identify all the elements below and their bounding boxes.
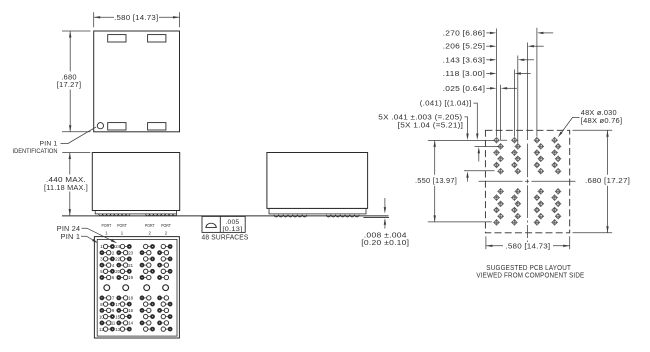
- row2 extension line: [475, 146, 500, 148]
- bottom view center holes: [104, 285, 169, 291]
- pcb pad column 2 top: [511, 137, 521, 174]
- dimension .680 [17.27] left: [57, 31, 91, 132]
- svg-text:11: 11: [111, 321, 116, 326]
- dimension .680 [17.27] right: [573, 130, 631, 233]
- top view pad window top-left: [108, 35, 126, 42]
- pcb extension line D (x=517.8): [517, 56, 519, 144]
- row6 extension line: [464, 170, 495, 172]
- bottom view pad row top1: [100, 244, 171, 249]
- side view (middle) body outline: [267, 153, 368, 209]
- svg-text:5X .041 ±.003 (=.205): 5X .041 ±.003 (=.205): [378, 114, 462, 121]
- svg-text:1: 1: [121, 230, 124, 235]
- leader PIN 1: [61, 232, 99, 243]
- row1 extension line: [428, 139, 495, 141]
- bottom view pad row bot3: [100, 308, 168, 313]
- svg-text:[11.18 MAX.]: [11.18 MAX.]: [44, 185, 88, 192]
- svg-text:2: 2: [149, 230, 152, 235]
- svg-text:.206 [5.25]: .206 [5.25]: [443, 44, 486, 51]
- svg-text:[48X ø0.76]: [48X ø0.76]: [581, 118, 623, 125]
- svg-text:.580 [14.73]: .580 [14.73]: [114, 15, 158, 22]
- svg-text:18: 18: [128, 296, 133, 301]
- side view (left) castellation pads: [99, 214, 177, 216]
- bottom view pad row top6: [100, 275, 168, 280]
- svg-text:[17.27]: [17.27]: [57, 82, 82, 89]
- label 5X .041: [378, 114, 468, 140]
- svg-text:.550 [13.97]: .550 [13.97]: [415, 178, 457, 185]
- leader PIN 1 IDENTIFICATION: [13, 127, 97, 155]
- svg-text:IDENTIFICATION: IDENTIFICATION: [13, 149, 58, 155]
- pcb pad column 4 top: [552, 137, 562, 174]
- bottom view pad row top5: [100, 269, 171, 274]
- top view pad window bottom-left: [108, 123, 126, 130]
- pcb extension line C (x=514.4): [513, 70, 515, 137]
- pcb pad column 1 bottom: [493, 188, 503, 225]
- side view (left) body outline: [92, 153, 179, 211]
- svg-text:12: 12: [99, 327, 104, 332]
- pcb pad column 2 bottom: [511, 188, 521, 225]
- dimension .550 [13.97]: [415, 140, 492, 222]
- svg-text:(.041) [(1.04)]: (.041) [(1.04)]: [420, 101, 472, 108]
- pcb pad column 3 top: [534, 137, 544, 174]
- row2 up arrow: [478, 147, 480, 162]
- svg-text:.440 MAX.: .440 MAX.: [46, 177, 86, 184]
- side view (middle) base strip: [269, 208, 366, 214]
- svg-text:PIN 1: PIN 1: [61, 232, 81, 241]
- caption SUGGESTED PCB LAYOUT: [476, 265, 584, 280]
- svg-text:[0.13]: [0.13]: [222, 226, 242, 233]
- bottom view pad row bot5: [100, 321, 168, 326]
- pcb extension line A (x=496.5): [496, 29, 498, 137]
- svg-text:20: 20: [115, 269, 120, 274]
- flatness callout frame: [202, 216, 249, 241]
- svg-text:13: 13: [115, 327, 120, 332]
- bottom view pad row top2: [100, 250, 168, 255]
- svg-text:VIEWED FROM COMPONENT SIDE: VIEWED FROM COMPONENT SIDE: [476, 273, 584, 280]
- svg-text:.680 [17.27]: .680 [17.27]: [585, 178, 630, 185]
- pcb pad column 4 bottom: [552, 188, 562, 225]
- row6 up arrow: [466, 171, 468, 181]
- side view (left) base strip: [95, 211, 176, 214]
- bottom view pad row bot6: [99, 327, 172, 332]
- label 48X dia .030: [558, 110, 623, 137]
- svg-text:48X ø.030: 48X ø.030: [581, 110, 617, 117]
- dimension .580 [14.73] top: [94, 12, 180, 27]
- svg-text:14: 14: [128, 321, 133, 326]
- pcb extension line F (x=536.9): [536, 28, 538, 137]
- dimension .008 +/-.004: [361, 198, 409, 247]
- svg-text:2: 2: [165, 230, 168, 235]
- svg-text:15: 15: [115, 314, 120, 319]
- bottom view inner outline: [97, 239, 177, 336]
- pcb vertical centerline: [526, 43, 528, 243]
- svg-text:PORT: PORT: [102, 223, 112, 228]
- pcb layout outline (dashed): [485, 130, 569, 233]
- dimension .580 [14.73] bottom: [486, 236, 570, 250]
- top view pad window top-right: [148, 35, 166, 42]
- svg-text:1: 1: [105, 230, 108, 235]
- bottom view pad row bot4: [99, 314, 172, 319]
- svg-text:PIN 1: PIN 1: [40, 141, 59, 147]
- svg-text:.270 [6.86]: .270 [6.86]: [443, 30, 486, 37]
- pcb dimension labels .270/.206/.143/.118/.025: [443, 30, 554, 92]
- svg-text:48 SURFACES: 48 SURFACES: [202, 235, 249, 242]
- svg-text:.008 ±.004: .008 ±.004: [364, 233, 407, 240]
- svg-text:.680: .680: [61, 74, 77, 81]
- svg-text:[5X 1.04 (=5.21)]: [5X 1.04 (=5.21)]: [398, 123, 464, 130]
- svg-text:16: 16: [128, 308, 133, 313]
- bottom view pad row bot1: [100, 296, 168, 301]
- label PORT 2 (a): [145, 223, 155, 235]
- svg-text:19: 19: [128, 275, 133, 280]
- svg-text:.143 [3.63]: .143 [3.63]: [443, 57, 486, 64]
- pcb pad column 1 top: [493, 137, 503, 174]
- svg-text:.580 [14.73]: .580 [14.73]: [505, 243, 550, 250]
- svg-text:PORT: PORT: [161, 223, 171, 228]
- top view pad window bottom-right: [148, 123, 166, 130]
- label (.041) [(1.04)]: [420, 101, 479, 140]
- svg-text:17: 17: [115, 302, 120, 307]
- bottom view pad row bot2: [100, 302, 171, 307]
- pcb pad column 3 bottom: [534, 188, 544, 225]
- svg-text:.025 [0.64]: .025 [0.64]: [443, 86, 486, 93]
- svg-text:PORT: PORT: [145, 223, 155, 228]
- bottom view pad row top4: [100, 263, 168, 268]
- dimension .440 MAX left: [44, 153, 90, 216]
- bottom view outer outline: [94, 237, 179, 338]
- pin 1 identification circle: [97, 123, 103, 129]
- svg-text:PORT: PORT: [117, 223, 127, 228]
- top view package outline: [94, 31, 180, 132]
- svg-text:[0.20 ±0.10]: [0.20 ±0.10]: [361, 240, 409, 247]
- svg-text:10: 10: [99, 314, 104, 319]
- label PORT 1 (a): [102, 223, 112, 235]
- label PORT 2 (b): [161, 223, 171, 235]
- pcb horizontal centerline: [479, 180, 578, 182]
- svg-text:24: 24: [115, 244, 120, 249]
- svg-text:22: 22: [115, 257, 120, 262]
- bottom view pad row top3: [100, 257, 171, 262]
- svg-text:23: 23: [128, 250, 133, 255]
- seating plane line: [62, 215, 389, 217]
- pcb extension line B (x=500.6): [501, 85, 507, 141]
- svg-text:.118 [3.00]: .118 [3.00]: [443, 71, 486, 78]
- side view (middle) castellation pads: [274, 215, 359, 217]
- svg-text:21: 21: [128, 263, 133, 268]
- svg-text:SUGGESTED PCB LAYOUT: SUGGESTED PCB LAYOUT: [486, 265, 571, 272]
- leader PIN 24: [57, 224, 118, 243]
- label PORT 1 (b): [117, 223, 127, 235]
